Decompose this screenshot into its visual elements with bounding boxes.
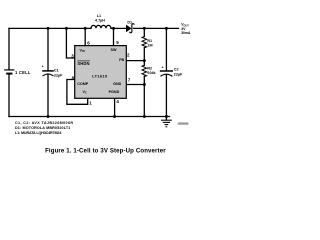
svg-text:R1: R1 — [147, 39, 152, 43]
wire top rail left — [9, 27, 91, 29]
svg-text:SW: SW — [111, 48, 117, 52]
svg-text:L1: MURATA LQH3C4R7M24: L1: MURATA LQH3C4R7M24 — [15, 131, 62, 135]
wire SHDN to rail — [66, 28, 74, 58]
resistor R1 — [142, 37, 147, 48]
wire SW pin 5 — [113, 28, 115, 45]
svg-text:D1: MOTOROLA MBR0520LT1: D1: MOTOROLA MBR0520LT1 — [15, 126, 70, 130]
svg-text:C1, C2: AVX TAJB226M006R: C1, C2: AVX TAJB226M006R — [15, 121, 73, 125]
junction SHDN wire on VIN rail — [65, 27, 68, 30]
wire R1 bottom to FB node — [143, 48, 145, 61]
svg-text:GND: GND — [113, 82, 122, 86]
svg-text:C2: C2 — [174, 67, 179, 71]
wire inductor to diode — [111, 27, 126, 29]
svg-text:PGND: PGND — [109, 90, 120, 94]
gray dash mark — [178, 122, 189, 124]
svg-text:22µF: 22µF — [174, 72, 183, 76]
wire FB pin 2 — [126, 60, 144, 62]
junction C1 bottom on ground rail — [47, 115, 50, 118]
battery 1 CELL — [8, 28, 10, 70]
IC U1 LT1610 — [75, 46, 127, 99]
wire GND pin 7 — [126, 84, 144, 86]
svg-text:1 CELL: 1 CELL — [15, 70, 31, 75]
svg-text:D1: D1 — [127, 20, 132, 24]
svg-text:+: + — [42, 65, 44, 69]
junction C2 top on VOUT rail — [165, 27, 168, 30]
capacitor C1 — [47, 28, 49, 70]
wire FB node to R2 — [143, 61, 145, 66]
junction C2 bottom on ground rail — [165, 115, 168, 118]
node FB junction — [143, 59, 146, 62]
junction C1 top on VIN rail — [47, 27, 50, 30]
svg-text:VC: VC — [83, 90, 87, 95]
svg-text:LT1610: LT1610 — [92, 74, 108, 79]
junction R2 bottom on ground rail — [143, 115, 146, 118]
svg-text:1M: 1M — [147, 43, 152, 47]
wire diode cathode to rail end — [134, 27, 179, 29]
resistor R2 — [142, 65, 147, 76]
svg-text:30mA: 30mA — [181, 31, 191, 35]
wire PGND pin 4 — [114, 98, 116, 116]
svg-text:+: + — [162, 66, 164, 70]
junction R1 top on VOUT rail — [143, 27, 146, 30]
junction SW node — [112, 27, 115, 30]
junction GND pin wire — [143, 83, 146, 86]
svg-text:C1: C1 — [54, 69, 59, 73]
svg-text:SHDN: SHDN — [77, 61, 89, 66]
svg-text:22µF: 22µF — [54, 74, 63, 78]
svg-text:Figure 1. 1-Cell to 3V Step-Up: Figure 1. 1-Cell to 3V Step-Up Converter — [45, 147, 166, 154]
junction PGND wire on ground rail — [113, 115, 116, 118]
inductor L1 — [91, 25, 111, 28]
diode D1 — [126, 25, 132, 33]
ground — [165, 117, 167, 120]
svg-text:COMP: COMP — [77, 82, 89, 86]
svg-text:4.7µH: 4.7µH — [95, 19, 105, 23]
wire COMP to VC loop — [67, 80, 88, 105]
svg-text:604k: 604k — [147, 71, 156, 75]
svg-text:L1: L1 — [97, 14, 101, 18]
wire VIN pin 6 — [84, 28, 86, 45]
wire R2 bottom to ground rail — [143, 76, 145, 116]
junction VIN pin wire on rail — [84, 27, 87, 30]
wire bottom ground rail — [9, 116, 170, 118]
wire R1 top — [143, 28, 145, 36]
svg-text:FB: FB — [119, 58, 124, 62]
capacitor C2 — [165, 28, 167, 70]
note parts list — [15, 121, 73, 135]
